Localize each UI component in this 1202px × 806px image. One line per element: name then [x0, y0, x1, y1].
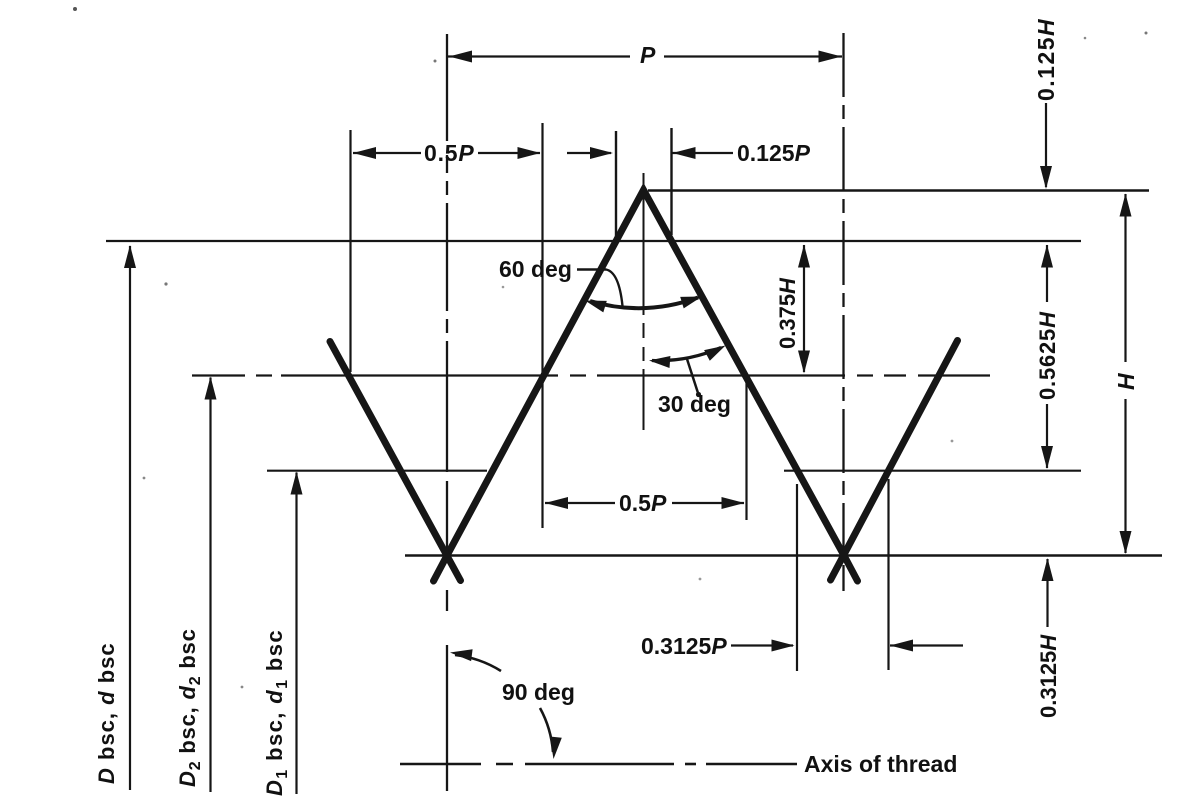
root line (bottom of H)	[405, 554, 1162, 557]
extension line x=616 (crest flat left)	[615, 131, 617, 243]
label: P	[640, 42, 656, 68]
label: D1 bsc, d1 bsc (rotated)	[262, 629, 291, 796]
thread profile: left flank of left groove	[330, 342, 461, 581]
extension line x=746.5 (lower 0.5P right)	[745, 380, 747, 520]
thread profile: right flank of right groove	[831, 341, 958, 581]
svg-text:0.5625H: 0.5625H	[1035, 311, 1060, 400]
label: 60 deg	[499, 256, 572, 282]
svg-text:D bsc, d bsc: D bsc, d bsc	[94, 642, 119, 784]
left thread centerline (dash-dot, x=447)	[446, 34, 448, 791]
extension line x=350.5 (0.5P left)	[349, 130, 351, 372]
label: 0.5625H (rotated)	[1035, 311, 1060, 400]
dimension D bsc: line	[129, 246, 131, 790]
minor diameter line left segment (D1 bsc)	[267, 470, 487, 472]
extension line x=888.5 (0.3125P right)	[887, 479, 889, 670]
pitch diameter line (D2 bsc, dash-dot)	[192, 374, 990, 376]
30 deg arc right arrowhead	[704, 346, 725, 361]
dimension H: line	[1124, 194, 1126, 553]
axis of thread centerline (dash-dot)	[400, 763, 797, 766]
crest line (0.125P flat, top of H)	[648, 189, 1149, 192]
30 deg arc left arrowhead	[649, 356, 670, 368]
30 deg angle arc	[652, 348, 721, 361]
crest centerline through apex (x=643.5)	[643, 173, 645, 430]
dimension 0.3125H: up arrowhead	[1042, 558, 1054, 581]
svg-text:0.125H: 0.125H	[1033, 18, 1059, 101]
60 deg angle arc	[590, 298, 698, 309]
label: 0.5P (lower)	[619, 490, 667, 516]
dimension 0.3125P: right-pointing arrowhead	[772, 640, 795, 652]
60 deg arc left arrowhead	[585, 301, 607, 313]
dimension 0.125P: right-pointing arrowhead	[590, 147, 613, 159]
scan speck	[699, 578, 702, 581]
dimension 0.375H: line	[803, 245, 805, 372]
dimension 0.125H: line	[1045, 103, 1047, 187]
label: Axis of thread	[804, 751, 957, 777]
svg-text:0.3125P: 0.3125P	[641, 633, 727, 659]
label: 0.3125H (rotated)	[1036, 634, 1061, 718]
thread profile: central ridge flanks (60 deg V)	[434, 190, 858, 581]
dimension 0.5P (lower): left arrowhead	[545, 497, 568, 509]
svg-text:0.5P: 0.5P	[619, 490, 667, 516]
dimension 0.5625H: line	[1046, 245, 1048, 468]
svg-text:0.375H: 0.375H	[775, 277, 800, 349]
right thread centerline (dash-dot, x=843.5)	[842, 33, 844, 591]
30 deg leader	[687, 359, 701, 397]
dimension P: right arrowhead	[819, 51, 842, 63]
svg-text:0.5P: 0.5P	[424, 140, 475, 166]
dimension 0.125P: left leader line	[567, 152, 611, 154]
60 deg leader	[577, 270, 623, 307]
svg-text:Axis of thread: Axis of thread	[804, 751, 957, 777]
major diameter line (D bsc)	[106, 240, 1081, 242]
dimension 0.5P (top): right arrowhead	[518, 147, 541, 159]
dimension 0.5P (top): line	[353, 152, 540, 154]
scan speck	[1145, 32, 1148, 35]
label: 0.5P (top)	[424, 140, 475, 166]
label: 30 deg	[658, 391, 731, 417]
dimension D2 bsc: up arrowhead	[205, 377, 217, 400]
extension line x=671.5 (crest flat right)	[670, 128, 672, 235]
dimension 0.125P: right leader line	[673, 152, 734, 154]
dimension 0.5P (lower): right arrowhead	[722, 497, 745, 509]
svg-text:90 deg: 90 deg	[502, 679, 575, 705]
dimension 0.375H: top arrowhead	[798, 245, 810, 268]
svg-text:30 deg: 30 deg	[658, 391, 731, 417]
label: 0.125P	[737, 140, 811, 166]
label: 0.125H (rotated)	[1033, 18, 1059, 101]
svg-text:0.125P: 0.125P	[737, 140, 811, 166]
dimension 0.5625H: bottom arrowhead	[1041, 446, 1053, 469]
90 deg arc lower segment	[540, 708, 553, 752]
svg-text:0.3125H: 0.3125H	[1036, 634, 1061, 718]
scan speck	[164, 282, 167, 285]
dimension H: top arrowhead	[1120, 194, 1132, 217]
scan speck	[502, 286, 505, 289]
dimension 0.3125H: line	[1046, 559, 1048, 627]
dimension D1 bsc: up arrowhead	[291, 472, 303, 495]
90 deg arc down arrowhead	[550, 737, 562, 760]
dimension 0.5P (lower): line	[545, 502, 744, 504]
label: D2 bsc, d2 bsc (rotated)	[175, 628, 204, 787]
svg-text:60 deg: 60 deg	[499, 256, 572, 282]
dimension 0.5625H: top arrowhead	[1041, 245, 1053, 268]
scan speck	[1084, 37, 1087, 40]
dimension D bsc: up arrowhead	[124, 245, 136, 268]
label: 0.3125P	[641, 633, 727, 659]
label: 90 deg	[502, 679, 575, 705]
dimension 0.3125P: left leader line	[731, 644, 793, 646]
minor diameter line right segment (D1 bsc)	[784, 470, 1081, 472]
dimension 0.3125P: left-pointing arrowhead	[890, 640, 913, 652]
dimension P: left arrowhead	[449, 51, 472, 63]
label: H (rotated)	[1113, 373, 1139, 390]
dimension 0.3125P: right leader line	[890, 644, 963, 646]
scan speck	[434, 60, 437, 63]
dimension H: bottom arrowhead	[1120, 531, 1132, 554]
dimension 0.125P: left-pointing arrowhead	[673, 147, 696, 159]
svg-text:P: P	[640, 42, 656, 68]
scan speck	[73, 7, 77, 11]
90 deg arc upper segment	[455, 655, 501, 671]
label: D bsc, d bsc (rotated)	[94, 642, 119, 784]
label: 0.375H (rotated)	[775, 277, 800, 349]
dimension D1 bsc: line	[295, 473, 297, 795]
60 deg arc right arrowhead	[680, 297, 702, 309]
scan speck	[241, 686, 244, 689]
extension line x=797 (0.3125P left)	[796, 484, 798, 671]
dimension P: line	[448, 55, 842, 57]
dimension 0.5P (top): left arrowhead	[353, 147, 376, 159]
dimension D2 bsc: line	[209, 378, 211, 793]
90 deg arc left arrowhead	[450, 649, 473, 661]
svg-text:H: H	[1113, 373, 1139, 390]
scan speck	[951, 440, 954, 443]
extension line x=542.5 (0.5P right / lower 0.5P left)	[541, 123, 543, 528]
scan speck	[143, 477, 146, 480]
dimension 0.375H: bottom arrowhead	[798, 351, 810, 374]
dimension 0.125H: down arrowhead	[1040, 166, 1052, 189]
